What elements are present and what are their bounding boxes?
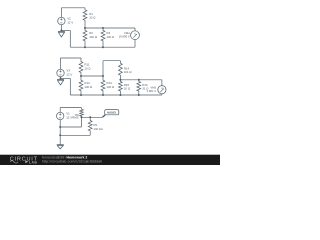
svg-text:100 kΩ: 100 kΩ (93, 127, 103, 131)
svg-text:http://circuitlab.com/c/32cqkr: http://circuitlab.com/c/32cqkr9dddah (42, 159, 102, 163)
svg-text:10.000 V: 10.000 V (119, 35, 130, 39)
svg-text:LAB: LAB (29, 160, 37, 164)
svg-text:100 Ω: 100 Ω (106, 35, 115, 39)
svg-text:NODE1: NODE1 (107, 112, 117, 115)
svg-text:12 V: 12 V (66, 72, 72, 76)
svg-text:R8: R8 (75, 113, 79, 117)
svg-text:1.001 V: 1.001 V (147, 89, 157, 93)
svg-text:101 Ω: 101 Ω (124, 70, 133, 74)
svg-text:12 V: 12 V (67, 20, 73, 24)
svg-text:100 Ω: 100 Ω (84, 85, 93, 89)
svg-text:10 Ω: 10 Ω (89, 16, 96, 20)
svg-text:100 Ω: 100 Ω (89, 35, 98, 39)
svg-text:100 Ω: 100 Ω (106, 85, 115, 89)
svg-text:20 Ω: 20 Ω (124, 87, 131, 91)
svg-text:10 Ω: 10 Ω (84, 66, 91, 70)
